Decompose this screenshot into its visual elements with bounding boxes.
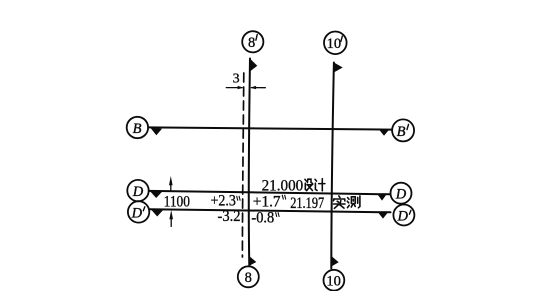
annotation +1.7": [253, 193, 286, 210]
svg-text:D: D: [132, 184, 144, 200]
dimension arrow above line D (points up): [169, 176, 173, 191]
dimension arrow below line D' (points up, tip at line): [169, 210, 173, 227]
flag left end of line B: [150, 128, 162, 136]
svg-text:+1.7: +1.7: [253, 193, 281, 210]
flag right end of line D: [377, 194, 387, 201]
hanzi 实 (of 实测): [334, 196, 346, 208]
annotation -3.2": [218, 208, 241, 225]
axis circle D (right): [391, 183, 412, 204]
svg-text:1100: 1100: [164, 193, 190, 210]
annotation +2.3": [211, 193, 241, 210]
axis line D' (horizontal): [150, 209, 391, 212]
svg-text:D: D: [395, 187, 407, 203]
svg-text:-3.2: -3.2: [218, 208, 241, 225]
axis circle 10 (bottom): [324, 270, 345, 291]
axis line B (horizontal): [148, 127, 392, 129]
axis circle D' (left): [128, 201, 149, 222]
flag left end of line D: [150, 191, 163, 198]
axis circle 8 (bottom): [238, 266, 259, 287]
axis line 8 (vertical solid): [249, 59, 250, 267]
svg-text:D: D: [131, 205, 143, 221]
flag left end of line D': [151, 209, 164, 216]
axis circle B (left): [127, 117, 148, 138]
dimension line for 3 (left segment with arrow): [226, 86, 243, 89]
axis circle 8' (top): [242, 31, 263, 52]
svg-text:21.000: 21.000: [262, 177, 304, 194]
axis line D (horizontal): [149, 191, 391, 194]
svg-text:8: 8: [248, 35, 255, 51]
axis circle 10' (top): [324, 32, 347, 55]
svg-text:B: B: [133, 121, 142, 137]
svg-text:8: 8: [245, 270, 252, 286]
flag at bottom of axis 8: [249, 256, 256, 266]
flag at bottom of axis 10: [332, 256, 339, 266]
flag right end of line D': [378, 212, 389, 219]
svg-text:3: 3: [233, 72, 240, 87]
dimension line for 3 (right segment with arrow): [250, 86, 265, 89]
flag at top of axis 8: [250, 59, 257, 72]
svg-text:10: 10: [326, 273, 341, 289]
hanzi 测 (of 测): [347, 196, 360, 208]
axis line 10 (vertical solid): [331, 63, 334, 269]
svg-text:-0.8: -0.8: [251, 209, 274, 226]
axis circle D (left): [127, 180, 148, 201]
axis circle B' (right): [392, 119, 414, 141]
svg-text:B: B: [397, 124, 406, 140]
flag at top of axis 10: [334, 63, 343, 73]
svg-text:10: 10: [327, 36, 342, 52]
annotation -0.8": [251, 209, 279, 226]
hanzi 设 (of 设计): [305, 179, 313, 190]
svg-text:D: D: [397, 209, 409, 225]
dashed reference line beside axis 8: [242, 73, 243, 257]
hanzi 计 (of 计): [315, 179, 325, 191]
flag right end of line B: [379, 129, 390, 136]
svg-text:+2.3: +2.3: [211, 193, 236, 210]
svg-text:21.197: 21.197: [290, 195, 324, 212]
axis circle D' (right): [393, 205, 414, 226]
